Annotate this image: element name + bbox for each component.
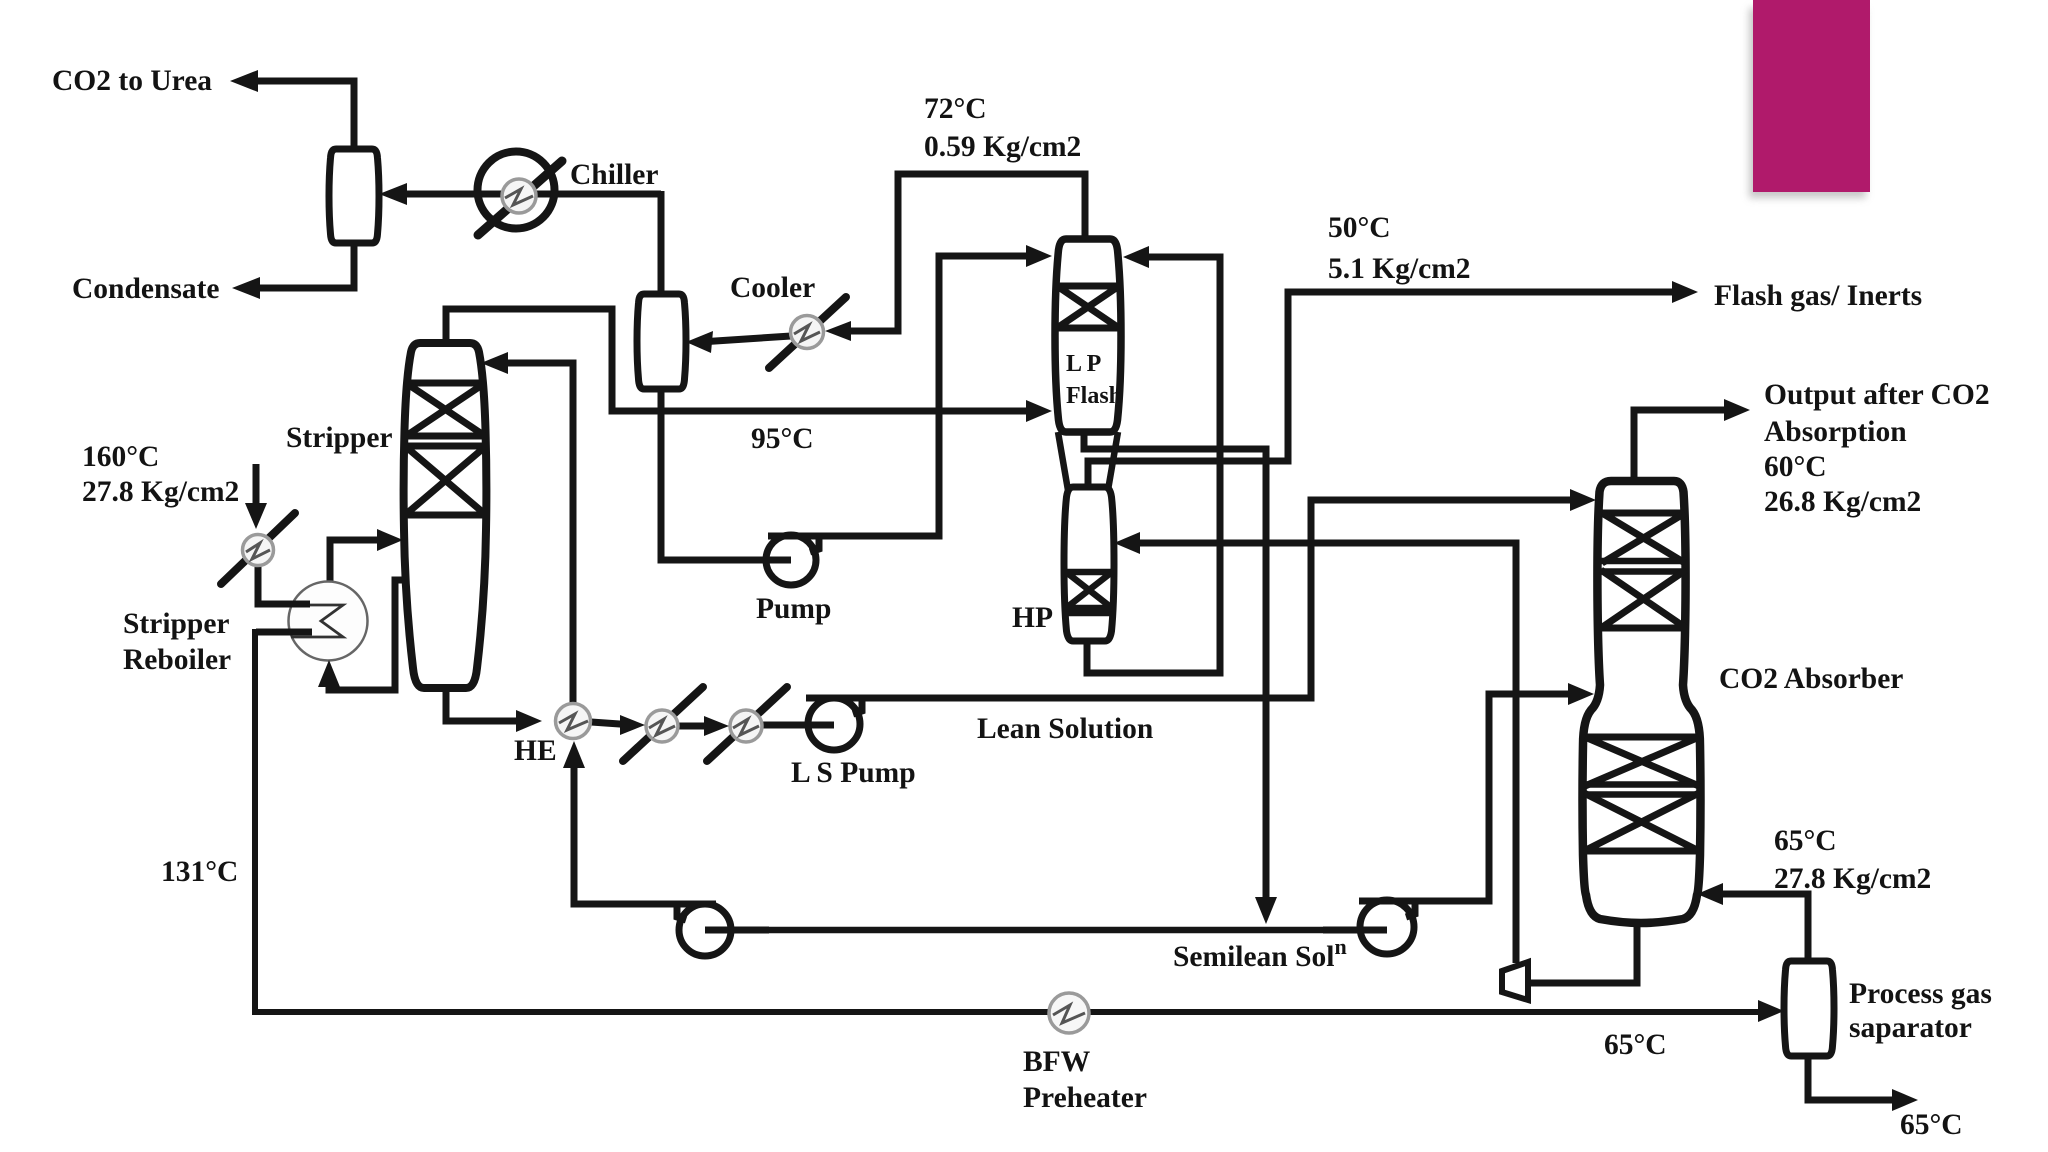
decorative magenta slide bar bbox=[1753, 0, 1870, 192]
absorber packing X section 2 bbox=[1601, 570, 1686, 628]
HP flash packing X section bbox=[1066, 572, 1112, 613]
pump: L S pump circle bbox=[770, 698, 862, 750]
wire: first LS cooler to second LS cooler bbox=[678, 723, 716, 730]
heat exchanger: lean solution cooler 1 bbox=[623, 687, 703, 761]
absorber lower packing X section 4 bbox=[1584, 793, 1699, 851]
decorative magenta slide bar shadow bbox=[1749, 8, 1866, 198]
arrow: into reboiler bottom up bbox=[318, 660, 340, 687]
stripper tray double lines bbox=[405, 436, 486, 446]
svg-text:26.8 Kg/cm2: 26.8 Kg/cm2 bbox=[1764, 486, 1921, 518]
wire: semilean suction header between pumps bbox=[705, 927, 1387, 934]
pump: semilean circulation pump left bbox=[677, 904, 769, 956]
pump: reflux pump circle bbox=[727, 535, 819, 585]
Chiller inner circle with zigzag bbox=[502, 179, 536, 213]
wire: separator bottoms outlet 65C bbox=[1808, 1053, 1904, 1100]
arrow: lean solution into absorber top left bbox=[1570, 489, 1596, 511]
arrow: semilean into absorber mid left bbox=[1568, 683, 1594, 705]
wire: semilean riser from pump to HE bottom bbox=[574, 753, 677, 904]
wire: rich solution riser from trapezoid to HP flash bbox=[1126, 543, 1516, 963]
wire: lean solution line from LS pump to absorber top bbox=[806, 500, 1582, 698]
heat exchanger: BFW preheater circle bbox=[1049, 993, 1089, 1033]
LP to HP connecting cone right line bbox=[1108, 432, 1118, 490]
svg-text:65°C: 65°C bbox=[1604, 1029, 1667, 1061]
heat exchanger: Cooler circle symbol bbox=[769, 297, 846, 368]
vessel: stripper column shell bbox=[404, 343, 487, 688]
svg-text:Pump: Pump bbox=[756, 593, 831, 625]
svg-text:L S Pump: L S Pump bbox=[791, 757, 916, 789]
svg-text:131°C: 131°C bbox=[161, 856, 238, 888]
heat exchanger: Chiller outer circle bbox=[478, 152, 555, 229]
arrow: into LS cooler 2 bbox=[704, 716, 729, 736]
wire: chiller to condensate drum line bbox=[389, 191, 661, 198]
arrow: lean solution into HE bbox=[516, 710, 542, 732]
svg-text:160°C: 160°C bbox=[82, 441, 159, 473]
svg-text:Cooler: Cooler bbox=[730, 272, 815, 304]
arrow: rich solution into HP flash right side bbox=[1114, 532, 1140, 554]
svg-text:Process gas: Process gas bbox=[1849, 978, 1992, 1010]
wire: stripper bottoms to HE lean line bbox=[446, 685, 528, 721]
svg-text:50°C: 50°C bbox=[1328, 212, 1391, 244]
wire: semilean pump discharge to absorber mid bbox=[1362, 694, 1580, 901]
arrow: condensate left bbox=[232, 277, 260, 299]
svg-text:Absorption: Absorption bbox=[1764, 416, 1907, 448]
svg-text:Stripper: Stripper bbox=[286, 422, 393, 454]
wire: stripper bottoms to reboiler bbox=[329, 580, 407, 690]
stripper packing X section 1 bbox=[406, 383, 485, 436]
wire: CO2 to Urea overhead line bbox=[240, 81, 354, 152]
svg-text:Flash: Flash bbox=[1066, 383, 1122, 409]
svg-text:L P: L P bbox=[1066, 351, 1101, 377]
heat exchanger: lean solution cooler 2 bbox=[707, 687, 787, 761]
wire: reboiler condensate BFW header to separator bbox=[255, 632, 1770, 1012]
svg-text:Preheater: Preheater bbox=[1023, 1082, 1147, 1114]
svg-text:72°C: 72°C bbox=[924, 93, 987, 125]
wire: HE outlet to first LS cooler bbox=[591, 722, 634, 725]
arrow: HP recycle into LP flash top right bbox=[1123, 246, 1149, 268]
svg-text:Chiller: Chiller bbox=[570, 159, 659, 191]
wire: cooler outlet sloped line into cooler drum bbox=[700, 336, 791, 342]
wire: reflux pump discharge up to LP flash top bbox=[768, 256, 1040, 536]
arrow: separator bottoms 65C right bbox=[1892, 1089, 1918, 1111]
arrow: CO2 to Urea left bbox=[230, 70, 258, 92]
svg-text:Output after CO2: Output after CO2 bbox=[1764, 379, 1990, 411]
vessel: HP flash column shell bbox=[1064, 487, 1114, 641]
arrow: semilean up into HE bottom bbox=[563, 741, 585, 768]
arrow: BFW line into separator left bbox=[1758, 1000, 1784, 1022]
svg-text:Lean Solution: Lean Solution bbox=[977, 713, 1153, 745]
arrow: steam feed down 160C bbox=[245, 503, 267, 529]
vessel: LP flash column shell bbox=[1055, 239, 1121, 432]
absorber packing top line bbox=[1602, 510, 1684, 517]
svg-text:BFW: BFW bbox=[1023, 1046, 1091, 1078]
heat exchanger: HE circle symbol bbox=[556, 704, 591, 739]
arrow: process gas into absorber bottom right bbox=[1697, 883, 1723, 905]
stripper packing top line bbox=[406, 380, 484, 387]
wire: steam feed arrow line 160C bbox=[253, 464, 260, 515]
vessel: CO2 absorber shell bbox=[1583, 481, 1701, 923]
svg-text:95°C: 95°C bbox=[751, 423, 814, 455]
arrow: output after CO2 absorption right bbox=[1724, 399, 1750, 421]
svg-text:5.1 Kg/cm2: 5.1 Kg/cm2 bbox=[1328, 253, 1471, 285]
wire: HP flash gas line to flash gas inerts bbox=[1088, 292, 1684, 490]
LP to HP connecting cone left line bbox=[1058, 432, 1070, 502]
absorber lower packing top line bbox=[1585, 734, 1699, 741]
wire: HP bottoms recycle up to LP flash top bbox=[1087, 257, 1220, 673]
wire: reboiler vapor return to stripper bbox=[330, 540, 391, 584]
svg-text:Stripper: Stripper bbox=[123, 608, 230, 640]
arrow: into cooler HX from 72C loop bbox=[825, 321, 851, 341]
arrow: 95C into LP flash mid left bbox=[1026, 400, 1052, 422]
arrow: reboiler vapor into stripper left bbox=[377, 529, 403, 551]
arrow: into cooler drum right side bbox=[686, 331, 713, 353]
wire: chiller line corner down to cooler drum bbox=[658, 191, 665, 297]
vessel: process gas separator drum bbox=[1784, 961, 1834, 1056]
svg-text:HE: HE bbox=[514, 735, 557, 767]
heat exchanger: steam feed HX circle 160C bbox=[221, 513, 295, 584]
wire: LP flash overhead 72C loop to cooler bbox=[839, 174, 1085, 331]
svg-text:CO2 to Urea: CO2 to Urea bbox=[52, 65, 212, 97]
pump: semilean pump right bbox=[1323, 900, 1415, 954]
svg-text:65°C: 65°C bbox=[1774, 825, 1837, 857]
arrow: into LP flash top left from pump bbox=[1026, 245, 1052, 267]
stripper packing bottom line bbox=[404, 512, 486, 519]
svg-text:27.8 Kg/cm2: 27.8 Kg/cm2 bbox=[1774, 863, 1931, 895]
arrow: into condensate drum left bbox=[379, 183, 407, 205]
absorber packing X section 1 bbox=[1602, 513, 1685, 563]
svg-text:Condensate: Condensate bbox=[72, 273, 220, 305]
wire: stripper overhead 95C line to LP flash bbox=[446, 309, 1040, 411]
Chiller diagonal line bbox=[478, 161, 562, 235]
svg-text:60°C: 60°C bbox=[1764, 451, 1827, 483]
svg-text:CO2 Absorber: CO2 Absorber bbox=[1719, 663, 1903, 695]
valve: rich solution letdown trapezoid bbox=[1502, 962, 1528, 1000]
LP flash packing X section bbox=[1057, 286, 1119, 328]
absorber lower tray double lines bbox=[1584, 785, 1699, 795]
wire: absorber bottoms to letdown trapezoid bbox=[1531, 917, 1637, 983]
wire: cooler drum bottoms to reflux pump suction bbox=[661, 386, 791, 560]
wire: second LS cooler to LS pump bbox=[762, 722, 834, 729]
arrow: into stripper top right bbox=[481, 352, 508, 374]
svg-text:Flash gas/ Inerts: Flash gas/ Inerts bbox=[1714, 280, 1922, 312]
arrow: into LS cooler 1 bbox=[620, 715, 645, 735]
wire: absorber bottom gas feed from separator top bbox=[1709, 894, 1808, 964]
svg-text:27.8 Kg/cm2: 27.8 Kg/cm2 bbox=[82, 476, 239, 508]
equipment: stripper reboiler kettle circle bbox=[256, 582, 368, 661]
svg-text:65°C: 65°C bbox=[1900, 1109, 1963, 1141]
stripper packing X section 2 bbox=[405, 446, 486, 515]
vessel: cooler reflux drum bbox=[637, 294, 686, 389]
svg-text:Reboiler: Reboiler bbox=[123, 644, 231, 676]
svg-text:saparator: saparator bbox=[1849, 1012, 1972, 1044]
arrow: flash gas inerts right bbox=[1672, 281, 1698, 303]
svg-text:0.59 Kg/cm2: 0.59 Kg/cm2 bbox=[924, 131, 1081, 163]
wire: absorber treated gas to output arrow bbox=[1634, 410, 1736, 486]
absorber lower packing X section 3 bbox=[1585, 737, 1699, 786]
wire: condensate outlet line bbox=[242, 240, 354, 288]
svg-text:HP: HP bbox=[1012, 602, 1053, 634]
vessel: condensate separator drum bbox=[329, 149, 379, 243]
absorber tray double lines bbox=[1601, 561, 1686, 572]
wire: LP flash bottoms semilean downcomer bbox=[1084, 429, 1266, 912]
absorber lower packing bottom line bbox=[1584, 848, 1699, 855]
wire: HE hot outlet riser to stripper top bbox=[493, 363, 573, 706]
arrow: semilean downcomer onto suction header bbox=[1255, 897, 1277, 924]
wire: steam HX to reboiler shell inlet bbox=[258, 566, 312, 604]
absorber packing mid line bbox=[1601, 625, 1686, 632]
